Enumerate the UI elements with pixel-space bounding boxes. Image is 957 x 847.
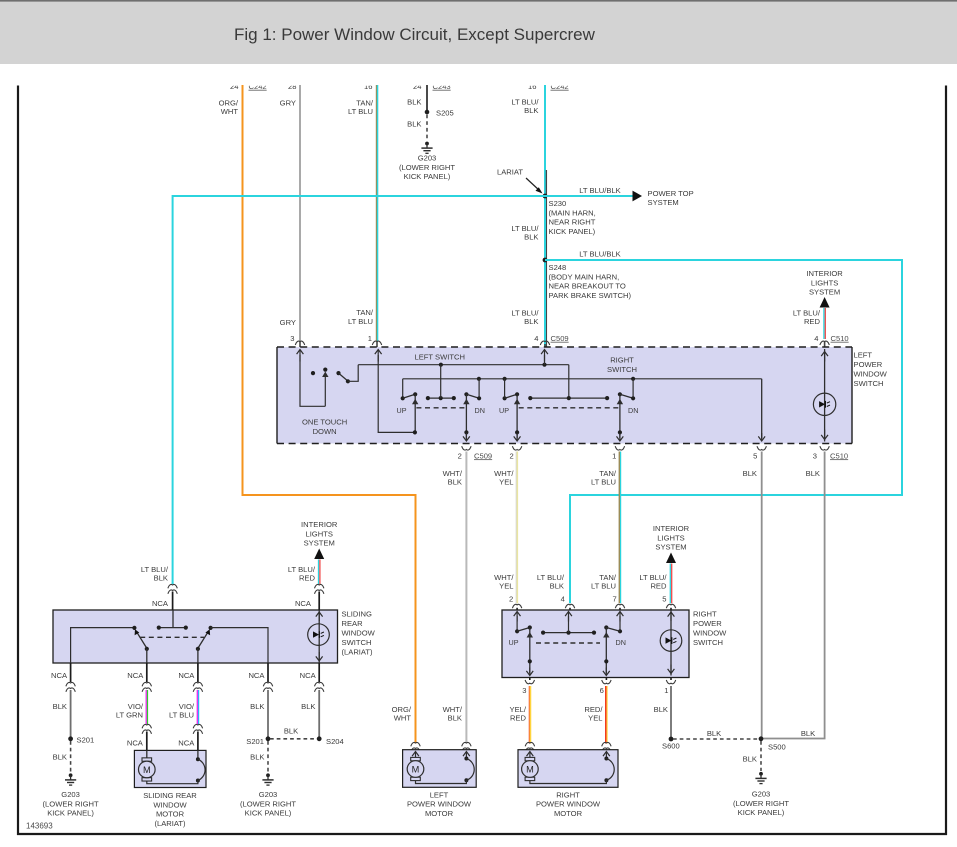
rps pin7 entry — [617, 612, 624, 634]
wire WHT/BLK connector — [462, 742, 471, 751]
label S230 block — [549, 199, 596, 236]
svg-text:BLK: BLK — [448, 478, 462, 487]
inline connector LT BLU/RED left — [315, 584, 324, 610]
label TAN/LT BLU top — [348, 99, 374, 117]
svg-text:WHT: WHT — [221, 107, 239, 116]
label LARIAT + pointer — [497, 168, 543, 194]
label BLK sliding pin5 — [301, 702, 315, 711]
svg-text:SLIDING: SLIDING — [342, 610, 372, 619]
svg-text:SWITCH: SWITCH — [854, 379, 884, 388]
ground G203 bottom right — [755, 772, 766, 784]
label NCA motor 1 — [127, 738, 144, 747]
sliding switch left branch — [71, 626, 137, 663]
pin 2 C509 bottom — [458, 446, 492, 460]
svg-text:DN: DN — [628, 406, 638, 415]
bus2 left drop — [401, 379, 405, 401]
svg-text:LT BLU/BLK: LT BLU/BLK — [579, 250, 621, 259]
label BLK S500 ground — [743, 755, 757, 764]
wire RED/YEL — [606, 686, 607, 744]
svg-text:LT GRN: LT GRN — [116, 711, 143, 720]
svg-text:DOWN: DOWN — [313, 427, 337, 436]
wire TAN/LT BLU out — [619, 452, 620, 611]
left switch contact row — [426, 365, 456, 401]
svg-text:RIGHT: RIGHT — [556, 790, 580, 799]
svg-text:LEFT: LEFT — [854, 351, 873, 360]
svg-text:BLK: BLK — [250, 702, 264, 711]
svg-text:NCA: NCA — [152, 599, 169, 608]
label VIO/LT BLU — [169, 702, 195, 720]
sliding lamp wire — [316, 610, 323, 663]
svg-text:(LOWER RIGHT: (LOWER RIGHT — [399, 163, 455, 172]
svg-text:SLIDING REAR: SLIDING REAR — [143, 791, 197, 800]
svg-text:4: 4 — [561, 594, 565, 603]
svg-text:NCA: NCA — [248, 671, 265, 680]
svg-text:C510: C510 — [831, 334, 849, 343]
svg-text:NCA: NCA — [300, 671, 317, 680]
svg-text:SYSTEM: SYSTEM — [655, 543, 686, 552]
svg-text:G203: G203 — [752, 790, 771, 799]
wire BLK sliding pin5 — [318, 690, 320, 739]
wire GRY — [299, 85, 301, 347]
pin 1 entry arrow — [375, 350, 415, 433]
label INTERIOR LIGHTS SYSTEM top right — [806, 269, 843, 297]
bus wire upper — [358, 363, 569, 399]
svg-text:C510: C510 — [830, 451, 848, 460]
lamp wire left switch — [821, 349, 828, 442]
svg-text:KICK PANEL): KICK PANEL) — [404, 172, 451, 181]
svg-text:WINDOW: WINDOW — [854, 370, 888, 379]
label BLK horiz S500 — [801, 729, 815, 738]
label LEFT SWITCH — [415, 353, 466, 362]
svg-text:SWITCH: SWITCH — [607, 365, 637, 374]
rps pin2 entry — [514, 612, 521, 634]
pin 1 bottom — [612, 446, 624, 460]
label G203 bottom right — [733, 790, 789, 818]
label BLK left ground — [53, 753, 67, 762]
arrow interior lights left — [314, 549, 324, 560]
svg-text:BLK: BLK — [524, 317, 538, 326]
label LT BLU/BLK above right switch — [537, 573, 565, 591]
left power window motor — [403, 750, 477, 788]
pin 3 C510 bottom — [813, 446, 848, 460]
svg-text:DN: DN — [616, 638, 626, 647]
label LEFT POWER WINDOW SWITCH — [854, 351, 888, 389]
one touch contacts — [311, 371, 341, 375]
label BLK S201-S204 — [284, 726, 298, 735]
svg-text:5: 5 — [662, 594, 666, 603]
label pin 24 C242 — [230, 82, 267, 91]
wire BLK dashed S201-S204 — [270, 738, 317, 740]
one touch lever — [339, 373, 348, 381]
svg-text:BLK: BLK — [301, 702, 315, 711]
svg-text:BLK: BLK — [524, 233, 538, 242]
label UP left — [397, 406, 407, 415]
wire BLK dashed to ground mid — [267, 741, 269, 773]
sliding switch bottom pin 3 — [178, 663, 202, 692]
wire BLK dashed S600-S500 — [673, 738, 759, 740]
svg-text:BLK: BLK — [407, 97, 421, 106]
label NCA motor 2 — [178, 738, 195, 747]
wire LT BLU/RED right2 — [670, 564, 671, 611]
svg-text:3: 3 — [522, 686, 526, 695]
svg-text:LT BLU: LT BLU — [591, 582, 616, 591]
inline gull pin5 right switch — [662, 594, 675, 608]
inline connector VIO/LT BLU — [193, 724, 202, 750]
wire LT BLU/BLK left branch — [173, 196, 545, 584]
svg-text:BLK: BLK — [743, 469, 757, 478]
svg-text:S205: S205 — [436, 108, 454, 117]
svg-text:2: 2 — [458, 451, 462, 460]
label RIGHT POWER WINDOW SWITCH — [693, 610, 727, 648]
svg-text:5: 5 — [753, 451, 757, 460]
svg-text:BLK: BLK — [284, 726, 298, 735]
svg-text:BLK: BLK — [53, 753, 67, 762]
sliding switch bottom pin 2 — [127, 663, 151, 692]
svg-text:1: 1 — [612, 451, 616, 460]
svg-text:(BODY MAIN HARN,: (BODY MAIN HARN, — [549, 272, 620, 281]
svg-text:YEL: YEL — [499, 582, 513, 591]
sliding switch bottom pin 1 — [51, 663, 75, 692]
splice S248 — [543, 258, 548, 263]
svg-text:BLK: BLK — [407, 120, 421, 129]
wire BLK dashed to ground left — [70, 741, 72, 773]
svg-text:S204: S204 — [326, 737, 344, 746]
splice S230 — [543, 194, 548, 199]
sliding switch right branch — [209, 626, 269, 663]
ground G203 bottom left — [65, 773, 76, 785]
bus wire lower — [403, 377, 762, 381]
label LT BLU/BLK left lower — [141, 565, 169, 583]
svg-text:SWITCH: SWITCH — [342, 638, 372, 647]
right switch contact row — [528, 396, 609, 400]
svg-text:SYSTEM: SYSTEM — [648, 198, 679, 207]
sliding switch left lever — [135, 629, 149, 663]
svg-text:UP: UP — [397, 406, 407, 415]
svg-text:1: 1 — [664, 686, 668, 695]
svg-text:6: 6 — [600, 686, 604, 695]
svg-text:BLK: BLK — [801, 729, 815, 738]
label POWER TOP SYSTEM — [648, 189, 694, 207]
svg-text:TAN/: TAN/ — [356, 308, 374, 317]
label RED/YEL — [584, 705, 603, 723]
inline gull pin4 right switch — [561, 594, 575, 608]
svg-text:7: 7 — [612, 594, 616, 603]
svg-text:YEL: YEL — [499, 478, 513, 487]
svg-text:DN: DN — [475, 406, 485, 415]
label UP right — [499, 406, 509, 415]
svg-text:(LOWER RIGHT: (LOWER RIGHT — [733, 799, 789, 808]
label INTERIOR LIGHTS SYSTEM right2 — [653, 524, 690, 552]
sliding switch link dashed — [140, 636, 204, 638]
label GRY lower — [280, 318, 296, 327]
svg-text:KICK PANEL): KICK PANEL) — [549, 227, 596, 236]
svg-text:WINDOW: WINDOW — [153, 800, 187, 809]
arrow power top system — [633, 191, 643, 202]
arrow interior lights top right — [820, 297, 830, 308]
label LT BLU/BLK lower — [511, 309, 539, 327]
svg-text:NEAR BREAKOUT TO: NEAR BREAKOUT TO — [549, 282, 626, 291]
label BLK sliding pin4 — [250, 702, 264, 711]
svg-text:LT BLU: LT BLU — [591, 478, 616, 487]
right power window motor — [518, 750, 618, 788]
label BLK pin3 — [806, 469, 820, 478]
arrow interior lights right2 — [666, 553, 676, 564]
svg-text:BLK: BLK — [448, 714, 462, 723]
pin 4 C510 left switch — [814, 334, 848, 345]
label VIO/LT GRN — [116, 702, 144, 720]
svg-text:BLK: BLK — [524, 106, 538, 115]
label RIGHT SWITCH — [607, 356, 637, 375]
wire BLK dashed to ground — [426, 115, 428, 141]
ground G203 bottom mid — [262, 773, 273, 785]
svg-text:G203: G203 — [259, 790, 278, 799]
label WHT/YEL upper — [494, 469, 514, 487]
svg-text:WINDOW: WINDOW — [342, 629, 376, 638]
pin 2 bottom — [509, 446, 521, 460]
svg-text:BLK: BLK — [654, 705, 668, 714]
wire LT BLU/BLK to power top — [545, 195, 633, 197]
label BLK rps pin1 — [654, 705, 668, 714]
rps bottom pin 6 — [600, 678, 612, 696]
svg-text:BLK: BLK — [743, 755, 757, 764]
svg-text:MOTOR: MOTOR — [425, 809, 454, 818]
label INTERIOR LIGHTS SYSTEM left — [301, 520, 338, 548]
svg-text:S201: S201 — [246, 737, 264, 746]
svg-text:(MAIN HARN,: (MAIN HARN, — [549, 208, 596, 217]
svg-text:NCA: NCA — [178, 738, 195, 747]
svg-text:POWER WINDOW: POWER WINDOW — [407, 800, 472, 809]
sliding switch bottom pin 5 — [300, 663, 324, 692]
svg-text:KICK PANEL): KICK PANEL) — [47, 809, 94, 818]
label pin 16 C242 — [528, 82, 569, 91]
left switch link dashed — [416, 407, 465, 409]
wire BLK pin5 — [761, 452, 763, 739]
pin 3 left switch — [290, 334, 304, 345]
label BLK S600-S500 — [707, 729, 721, 738]
svg-text:RED: RED — [299, 574, 316, 583]
svg-text:2: 2 — [509, 594, 513, 603]
svg-text:M: M — [526, 764, 534, 774]
wire WHT/YEL — [516, 452, 517, 611]
svg-text:(LOWER RIGHT: (LOWER RIGHT — [43, 799, 99, 808]
svg-text:M: M — [412, 764, 420, 774]
label BLK pin5 — [743, 469, 757, 478]
one touch output node — [346, 365, 358, 384]
wire BLK sliding pin1 — [70, 690, 72, 739]
svg-text:3: 3 — [290, 334, 294, 343]
label YEL/RED — [510, 705, 527, 723]
svg-text:S600: S600 — [662, 742, 680, 751]
label ORG/WHT lower — [392, 705, 412, 723]
svg-text:BLK: BLK — [250, 753, 264, 762]
svg-text:NCA: NCA — [51, 671, 68, 680]
inline connector VIO/LT GRN — [142, 724, 151, 750]
wire LT BLU/RED top right — [824, 308, 825, 347]
wire LT BLU/BLK feed — [545, 85, 546, 347]
illumination lamp right switch — [660, 630, 682, 652]
svg-text:RED: RED — [510, 714, 527, 723]
label pin 24 C243 — [413, 82, 451, 91]
left power window switch box — [277, 347, 852, 444]
splice S201 right — [246, 736, 270, 745]
rps UP lever — [517, 625, 533, 675]
svg-text:M: M — [143, 765, 151, 775]
pin 1 left switch — [368, 334, 382, 345]
sliding switch bottom pin 4 — [248, 663, 272, 692]
svg-text:3: 3 — [813, 451, 817, 460]
label TAN/LT BLU lower — [348, 308, 374, 326]
splice S500 — [759, 736, 786, 751]
svg-text:SYSTEM: SYSTEM — [304, 539, 335, 548]
pin 4 C509 left switch — [534, 334, 568, 347]
wire LT BLU/RED left — [319, 560, 320, 585]
ground G203 upper — [421, 142, 432, 154]
svg-text:RED: RED — [804, 317, 821, 326]
svg-text:Fig 1: Power Window Circuit, E: Fig 1: Power Window Circuit, Except Supe… — [234, 25, 596, 44]
label TAN/LT BLU lower2 — [591, 573, 617, 591]
svg-text:RIGHT: RIGHT — [610, 356, 634, 365]
svg-text:BLK: BLK — [550, 582, 564, 591]
svg-text:POWER TOP: POWER TOP — [648, 189, 694, 198]
label LT BLU/RED right2 — [639, 573, 667, 591]
label pin 16a — [364, 82, 372, 91]
wire VIO/LT BLU — [197, 690, 198, 724]
svg-text:S500: S500 — [768, 743, 786, 752]
svg-text:LT BLU: LT BLU — [348, 317, 373, 326]
svg-text:RED: RED — [650, 582, 667, 591]
svg-text:POWER WINDOW: POWER WINDOW — [536, 800, 601, 809]
illumination lamp left switch — [813, 393, 835, 415]
svg-text:2: 2 — [509, 451, 513, 460]
wire LT BLU/BLK S248 loop — [545, 260, 902, 610]
svg-text:UP: UP — [499, 406, 509, 415]
wire YEL/RED — [529, 686, 530, 744]
svg-text:MOTOR: MOTOR — [156, 810, 185, 819]
wire ORG/WHT feed — [243, 85, 416, 744]
title bar — [0, 0, 957, 64]
label WHT/BLK lower — [443, 705, 463, 723]
splice S201 left — [68, 735, 94, 744]
svg-text:LT BLU: LT BLU — [169, 711, 194, 720]
svg-text:YEL: YEL — [588, 714, 602, 723]
svg-text:GRY: GRY — [280, 99, 296, 108]
svg-text:MOTOR: MOTOR — [554, 809, 583, 818]
svg-text:REAR: REAR — [342, 619, 364, 628]
svg-text:RIGHT: RIGHT — [693, 610, 717, 619]
label TAN/LT BLU upper2 — [591, 469, 617, 487]
label NCA top sliding 1 — [152, 599, 169, 608]
wire RED/YEL connector — [602, 742, 611, 751]
splice S600 — [662, 737, 680, 751]
svg-text:LEFT: LEFT — [430, 790, 449, 799]
svg-text:4: 4 — [814, 334, 818, 343]
svg-text:G203: G203 — [61, 790, 80, 799]
label ONE TOUCH DOWN — [302, 418, 347, 436]
label LT BLU/BLK top — [511, 97, 539, 115]
pin 5 drop — [758, 379, 765, 441]
label G203 bottom mid — [240, 790, 296, 818]
svg-text:S248: S248 — [549, 263, 567, 272]
label BLK sliding pin1 — [53, 702, 67, 711]
label DN right — [628, 406, 638, 415]
svg-text:LARIAT: LARIAT — [497, 168, 523, 177]
svg-text:(LARIAT): (LARIAT) — [342, 648, 374, 657]
left UP lever — [403, 392, 419, 434]
svg-text:4: 4 — [534, 334, 538, 343]
label LT BLU/BLK horiz2 — [579, 250, 621, 259]
svg-text:(LARIAT): (LARIAT) — [154, 819, 186, 828]
svg-text:S230: S230 — [549, 199, 567, 208]
svg-text:KICK PANEL): KICK PANEL) — [245, 809, 292, 818]
illumination lamp sliding switch — [308, 624, 330, 646]
label ORG/WHT top — [219, 99, 239, 117]
pin 5 bottom — [753, 446, 766, 460]
svg-text:G203: G203 — [418, 154, 437, 163]
inline gull pin7 right switch — [612, 594, 624, 608]
inline connector left cyan — [168, 584, 177, 610]
svg-text:NCA: NCA — [127, 738, 144, 747]
label DN rps — [616, 638, 626, 647]
svg-text:BLK: BLK — [707, 729, 721, 738]
wire VIO/LT GRN — [146, 690, 147, 724]
label LEFT POWER WINDOW MOTOR — [407, 790, 472, 818]
label NCA top sliding 2 — [295, 599, 312, 608]
label BLK mid ground — [250, 753, 264, 762]
rps bottom pin 1 — [664, 678, 675, 696]
wire BLK pin3 — [762, 452, 825, 739]
svg-text:WINDOW: WINDOW — [693, 629, 727, 638]
svg-text:LIGHTS: LIGHTS — [811, 278, 838, 287]
svg-text:KICK PANEL): KICK PANEL) — [738, 808, 785, 817]
svg-text:NCA: NCA — [178, 671, 195, 680]
right UP lever — [503, 379, 521, 441]
label WHT/YEL lower — [494, 573, 514, 591]
svg-text:143693: 143693 — [26, 822, 53, 831]
svg-text:WHT: WHT — [394, 714, 412, 723]
svg-text:1: 1 — [368, 334, 372, 343]
wire TAN/LT BLU feed — [376, 85, 377, 347]
label DN left — [475, 406, 485, 415]
svg-text:LT BLU/BLK: LT BLU/BLK — [579, 186, 621, 195]
pin 3 entry arrow — [297, 350, 326, 407]
svg-text:LT BLU: LT BLU — [348, 107, 373, 116]
svg-text:BLK: BLK — [806, 469, 820, 478]
svg-text:PARK BRAKE SWITCH): PARK BRAKE SWITCH) — [549, 291, 632, 300]
wire BLK sliding pin4 — [267, 690, 269, 739]
svg-text:NCA: NCA — [127, 671, 144, 680]
svg-text:UP: UP — [509, 638, 519, 647]
rps bottom pin 3 — [522, 678, 534, 696]
rps lamp wire — [668, 610, 675, 676]
label S248 block — [549, 263, 632, 300]
label BLK lower — [407, 120, 421, 129]
wire WHT/BLK — [465, 452, 467, 744]
wire ORG/WHT connector — [411, 742, 420, 751]
wire BLK S205 feed — [426, 85, 428, 112]
splice S204 — [317, 736, 344, 745]
inline gull pin2 right switch — [509, 594, 522, 608]
wire BLK rps pin1 — [670, 686, 672, 739]
label LT BLU/BLK horiz1 — [579, 186, 621, 195]
label SLIDING REAR WINDOW SWITCH (LARIAT) — [342, 610, 376, 657]
svg-text:C509: C509 — [474, 451, 492, 460]
left DN lever — [463, 379, 481, 441]
one touch contact stem — [322, 368, 328, 407]
rps DN lever — [603, 625, 620, 675]
label WHT/BLK upper — [443, 469, 463, 487]
svg-text:INTERIOR: INTERIOR — [301, 520, 338, 529]
svg-text:NCA: NCA — [295, 599, 312, 608]
